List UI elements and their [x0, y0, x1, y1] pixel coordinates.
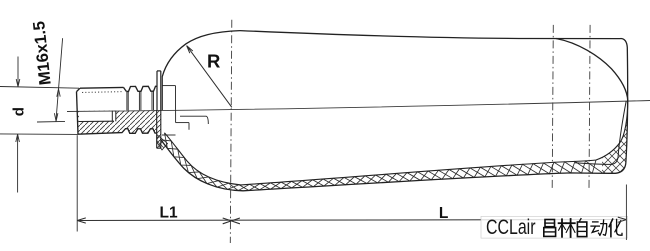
watermark CJK glyphs — [544, 219, 622, 237]
bore bottom line — [79, 120, 114, 122]
svg-text:L1: L1 — [160, 204, 178, 221]
dim extension M16 bottom — [37, 120, 65, 123]
insert lower section hatch — [78, 110, 161, 148]
arrow left — [77, 218, 86, 223]
vertical dash-dot center left — [230, 20, 232, 243]
L extension right — [625, 185, 627, 241]
inner shell line right end — [575, 101, 626, 164]
dim d bottom arrow — [16, 134, 20, 192]
dim line L1 L — [77, 220, 626, 221]
handle left face — [161, 77, 163, 111]
cavity step vertical 2 — [188, 123, 190, 130]
handle face step vertical — [175, 86, 177, 110]
glyph chang — [544, 220, 556, 237]
ring profile top — [126, 86, 157, 91]
dim d top arrow — [16, 57, 20, 87]
svg-text:d: d — [11, 107, 28, 116]
flange lower section — [157, 110, 161, 148]
wall band zigzag hatch A — [161, 140, 596, 191]
centerline horizontal — [67, 101, 650, 112]
R arrow — [187, 46, 232, 108]
insert end line — [180, 116, 208, 124]
dim M16 line — [56, 38, 63, 122]
arrow M16 down — [54, 113, 58, 121]
thread top edge — [80, 86, 124, 89]
svg-text:CCLair: CCLair — [486, 216, 536, 239]
grip bottom-right corner — [616, 164, 626, 174]
groove verticals — [127, 91, 154, 110]
arrow M16 up — [57, 89, 60, 97]
grip top-right corner — [621, 39, 628, 48]
glyph hua — [609, 219, 622, 236]
mirror step line — [162, 134, 176, 136]
dome inner curve right end — [556, 39, 628, 101]
svg-text:L: L — [439, 205, 448, 222]
vertical dash-dot right 1 — [552, 25, 553, 188]
arrow center X — [223, 218, 240, 224]
dim extension top left — [0, 87, 79, 89]
cavity step vertical 1 — [175, 110, 177, 123]
bore end cap — [111, 111, 113, 122]
grip outer bottom-left curve — [161, 140, 243, 191]
insert lower profile — [78, 129, 157, 135]
stud left face — [77, 92, 79, 135]
thread minor dotted line — [82, 91, 122, 94]
stud top chamfer — [77, 88, 81, 91]
watermark background box — [481, 216, 628, 238]
wall band zigzag hatch B — [165, 133, 604, 191]
arrow right — [618, 217, 627, 222]
grip R curve top-left — [162, 31, 240, 77]
L1 extension left — [76, 135, 78, 231]
grip right face — [626, 48, 628, 164]
glyph dong — [591, 220, 607, 235]
cavity inner boundary — [165, 101, 628, 185]
grip top edge — [240, 31, 621, 39]
cavity step horizontal — [176, 122, 189, 124]
vertical dash-dot right 2 — [589, 25, 590, 188]
right end wall crosshatch fill — [602, 101, 628, 173]
svg-text:R: R — [207, 50, 220, 71]
dim extension d bottom — [0, 133, 78, 136]
flange foot hatched — [157, 135, 168, 151]
grip bottom edge — [243, 173, 616, 191]
flange — [157, 71, 161, 110]
thread right chamfer — [124, 87, 127, 91]
glyph zi — [577, 219, 586, 237]
handle face step line — [162, 85, 175, 87]
glyph lin — [559, 219, 575, 237]
